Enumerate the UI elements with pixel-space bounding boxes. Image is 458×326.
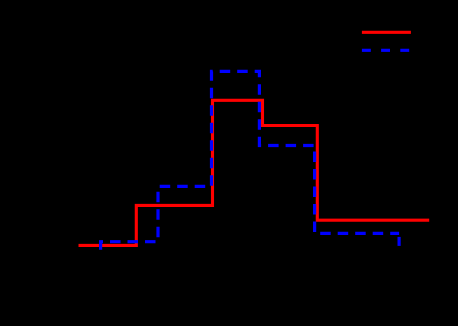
- red solid step line (histogram 1): [79, 100, 430, 245]
- blue step line final drop dash: [398, 237, 401, 246]
- blue dashed step line (histogram 2): [101, 71, 400, 249]
- legend blue dashed line sample: [362, 49, 410, 52]
- legend red solid line sample: [362, 31, 411, 34]
